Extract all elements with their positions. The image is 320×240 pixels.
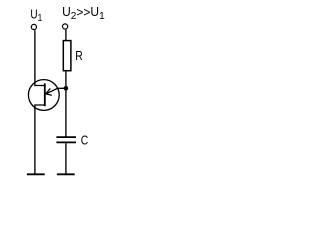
- svg-text:R: R: [75, 49, 83, 63]
- capacitor C top plate: [56, 136, 76, 138]
- terminal U1: [31, 24, 36, 29]
- wire capacitor to ground: [65, 143, 67, 174]
- wire resistor to node: [65, 72, 67, 138]
- svg-text:C: C: [81, 133, 89, 147]
- terminal U2: [63, 24, 68, 29]
- ground left: [27, 173, 45, 175]
- resistor R: [63, 41, 71, 71]
- ground right: [57, 173, 75, 175]
- junction node dot: [64, 86, 69, 91]
- wire base B1 to ground: [35, 105, 45, 174]
- transistor emitter wire from node: [46, 88, 66, 94]
- transistor Q1 circle: [28, 80, 59, 111]
- capacitor C bottom plate: [56, 141, 76, 143]
- wire U1 to base B2: [35, 30, 45, 85]
- transistor emitter arrowhead: [46, 88, 52, 95]
- transistor Q1 base bar: [44, 83, 46, 106]
- wire U2 to resistor: [65, 30, 67, 41]
